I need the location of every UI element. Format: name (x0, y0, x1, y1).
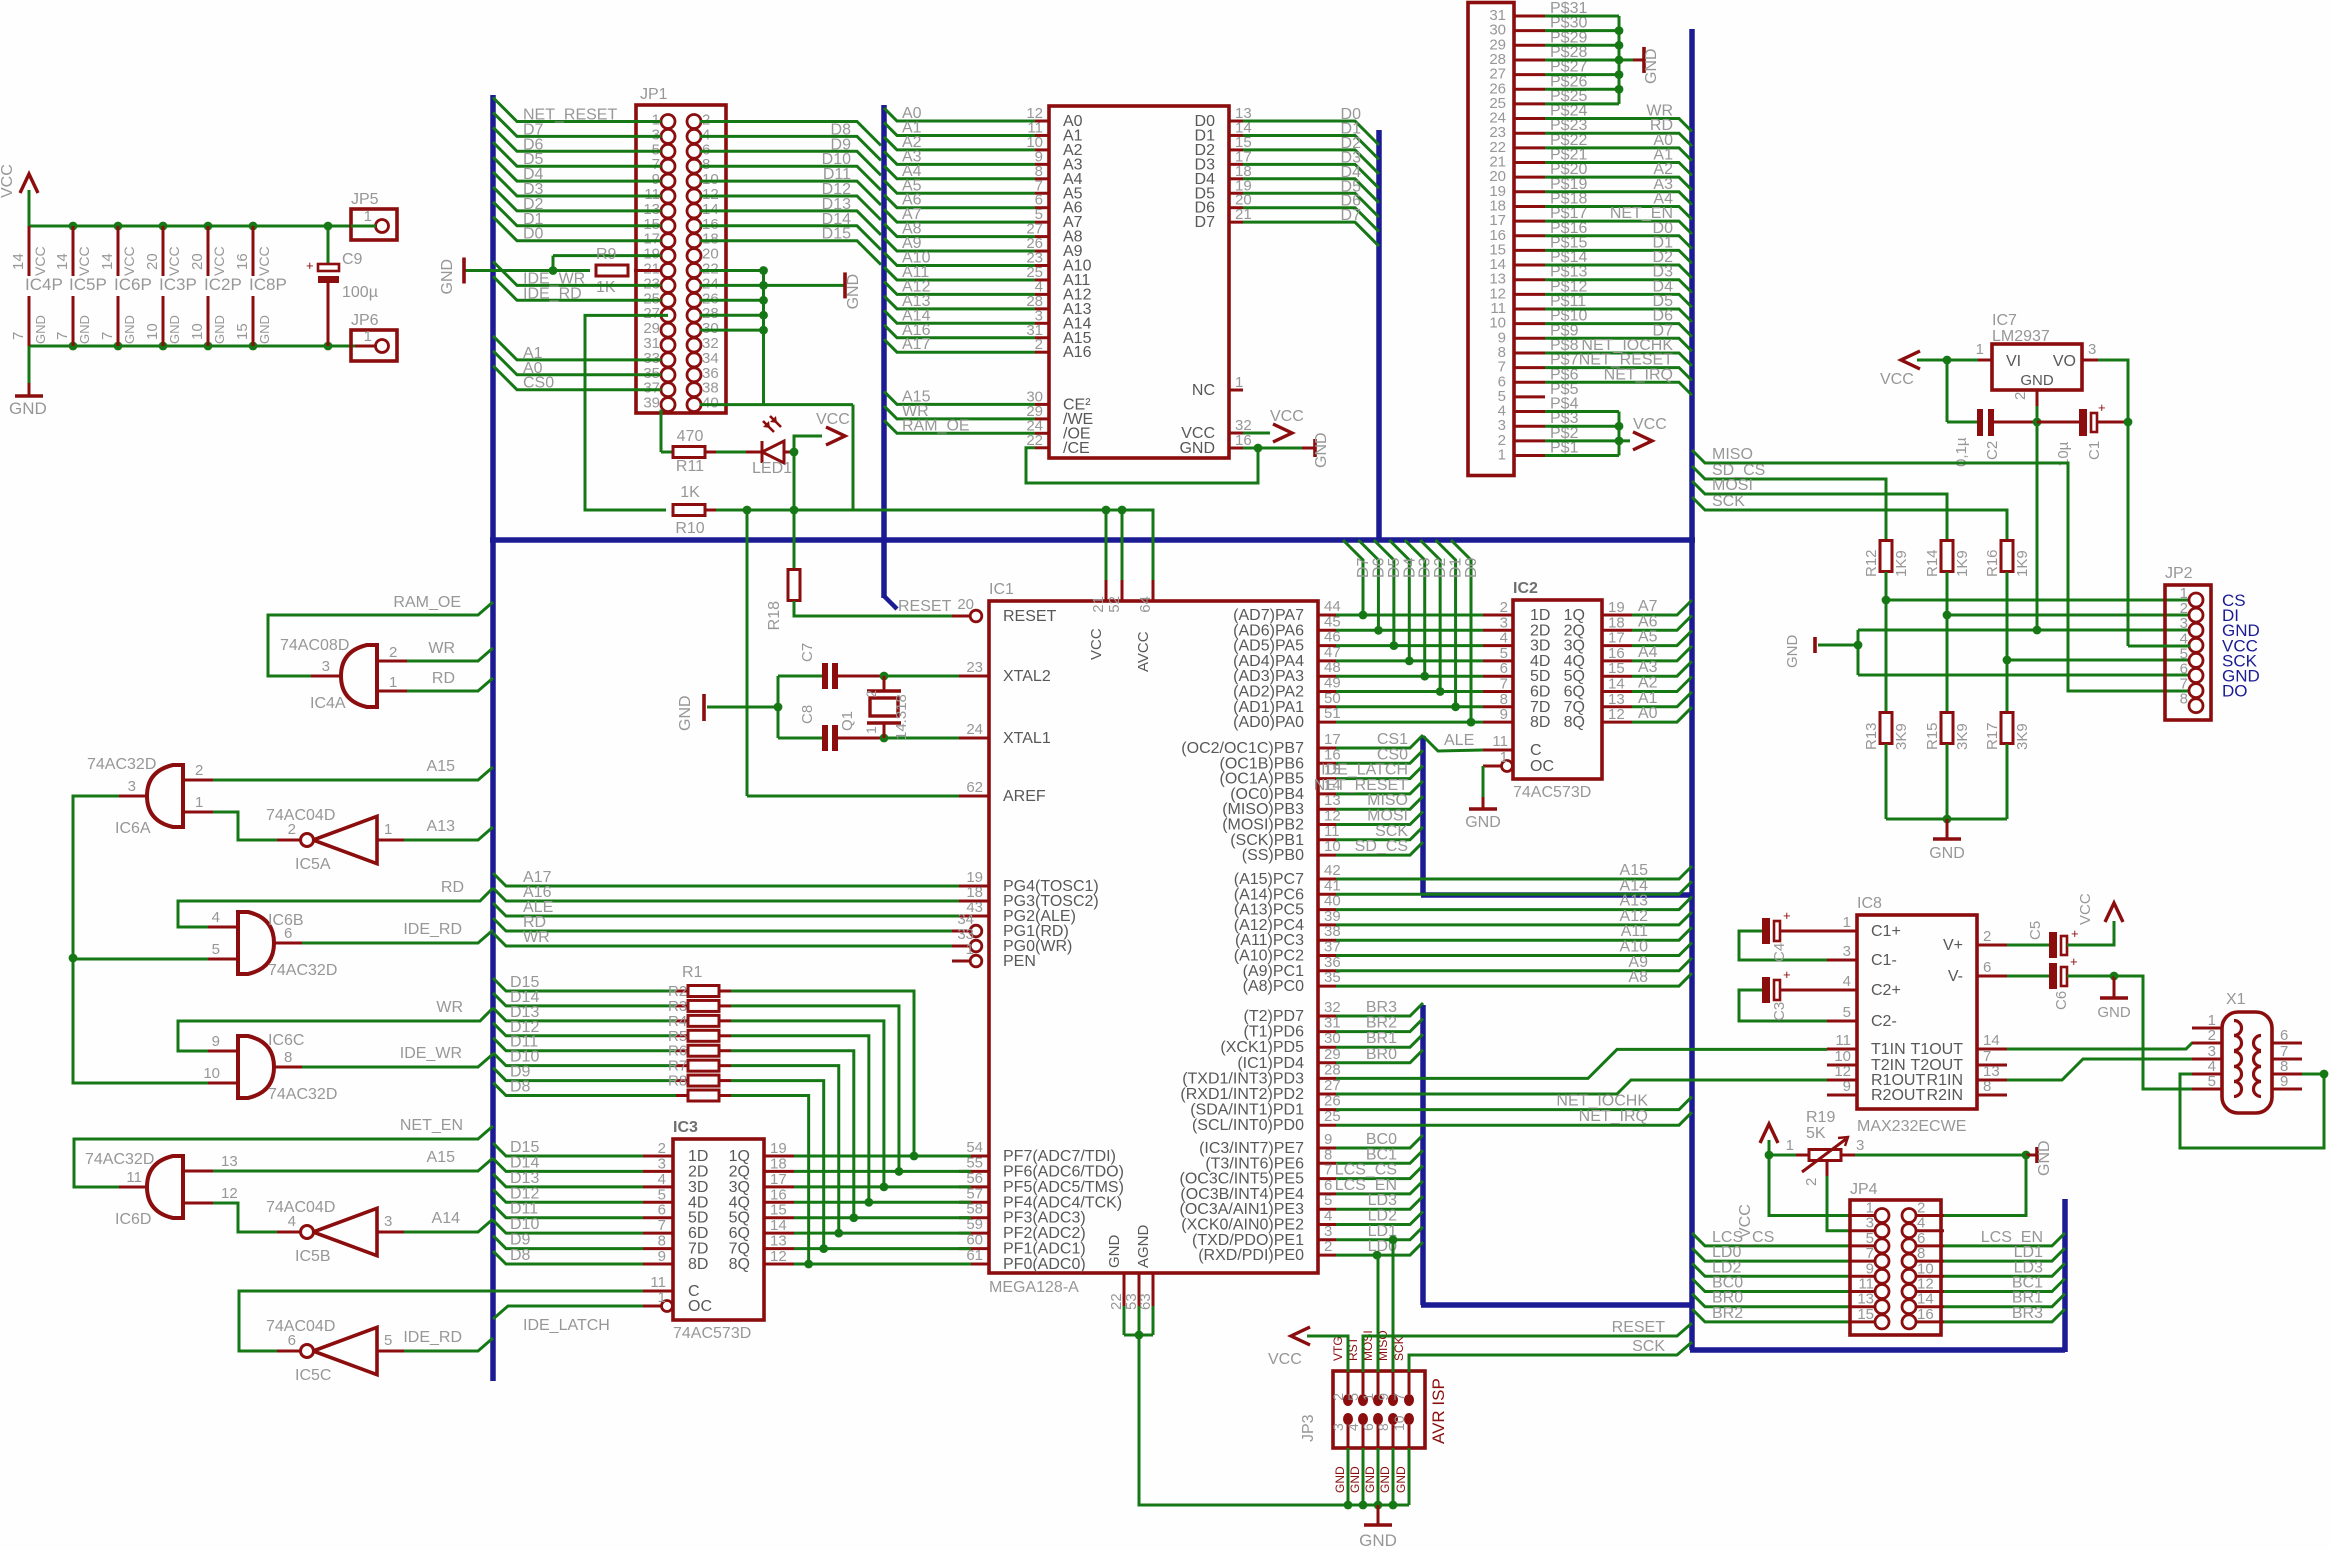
svg-text:2: 2 (2012, 392, 2029, 400)
svg-text:(TXD1/INT3)PD3: (TXD1/INT3)PD3 (1182, 1070, 1304, 1087)
svg-text:BR3: BR3 (2012, 1305, 2043, 1322)
svg-text:RESET: RESET (1612, 1319, 1666, 1336)
svg-text:GND: GND (1179, 440, 1215, 457)
svg-text:IDE_RD: IDE_RD (403, 1329, 462, 1346)
svg-text:5: 5 (1345, 1393, 1361, 1401)
svg-text:14.318: 14.318 (893, 694, 910, 740)
svg-text:RESET: RESET (898, 598, 952, 615)
svg-text:74AC573D: 74AC573D (1513, 784, 1591, 801)
svg-text:(RXD/PDI)PE0: (RXD/PDI)PE0 (1198, 1247, 1304, 1264)
svg-text:VCC: VCC (1268, 1351, 1302, 1368)
svg-text:A0: A0 (1638, 705, 1658, 722)
svg-text:WR: WR (428, 640, 455, 657)
svg-text:WR: WR (436, 999, 463, 1016)
svg-text:+: + (2070, 954, 2078, 969)
svg-text:GND: GND (2020, 372, 2054, 389)
svg-text:3: 3 (384, 1213, 392, 1230)
svg-text:AVCC: AVCC (1135, 631, 1152, 672)
svg-text:BR2: BR2 (1712, 1305, 1743, 1322)
svg-text:R13: R13 (1863, 722, 1880, 750)
svg-text:T1OUT: T1OUT (1911, 1041, 1964, 1058)
svg-text:2: 2 (1330, 1393, 1346, 1401)
svg-text:IC5C: IC5C (295, 1367, 331, 1384)
svg-text:14: 14 (1983, 1032, 2000, 1049)
svg-text:ALE: ALE (1444, 732, 1474, 749)
svg-text:A16: A16 (1063, 344, 1092, 361)
svg-text:C: C (1530, 742, 1542, 759)
svg-text:74AC04D: 74AC04D (266, 807, 335, 824)
svg-text:13: 13 (221, 1153, 238, 1170)
svg-text:IC4P: IC4P (25, 275, 63, 294)
svg-text:(SCL/INT0)PD0: (SCL/INT0)PD0 (1192, 1117, 1304, 1134)
svg-text:12: 12 (221, 1185, 238, 1202)
svg-text:NET_IRQ: NET_IRQ (1579, 1108, 1648, 1125)
svg-text:15: 15 (1857, 1306, 1874, 1323)
svg-text:10: 10 (189, 323, 206, 340)
svg-text:D0: D0 (1463, 557, 1480, 578)
svg-text:(T1)PD6: (T1)PD6 (1244, 1024, 1305, 1041)
svg-text:SCK: SCK (1632, 1338, 1665, 1355)
svg-text:1K9: 1K9 (1893, 550, 1910, 577)
svg-text:1: 1 (195, 794, 203, 811)
svg-text:1K: 1K (680, 484, 700, 501)
svg-text:74AC32D: 74AC32D (85, 1151, 154, 1168)
svg-text:IC8: IC8 (1857, 895, 1882, 912)
svg-text:R2OUT: R2OUT (1871, 1087, 1925, 1104)
svg-text:8: 8 (284, 1049, 292, 1066)
svg-text:(IC1)PD4: (IC1)PD4 (1237, 1055, 1304, 1072)
svg-text:GND: GND (33, 315, 48, 344)
svg-text:IC1: IC1 (989, 581, 1014, 598)
svg-text:2: 2 (2208, 1027, 2216, 1044)
svg-text:5: 5 (212, 941, 220, 958)
svg-text:21: 21 (1090, 596, 1107, 613)
svg-text:52: 52 (1106, 596, 1123, 613)
svg-text:1: 1 (1360, 1393, 1376, 1401)
svg-text:GND: GND (257, 315, 272, 344)
svg-text:VTG: VTG (1331, 1336, 1345, 1361)
svg-text:14: 14 (99, 253, 116, 270)
svg-text:GND: GND (2036, 1140, 2053, 1176)
svg-text:NET_IOCHK: NET_IOCHK (1556, 1093, 1648, 1110)
svg-text:Q1: Q1 (839, 711, 856, 731)
svg-text:1: 1 (863, 726, 879, 734)
svg-text:IC3P: IC3P (159, 275, 197, 294)
svg-text:10: 10 (144, 323, 161, 340)
svg-text:JP4: JP4 (1850, 1181, 1878, 1198)
svg-text:GND: GND (1378, 1466, 1392, 1493)
svg-text:D7: D7 (1341, 207, 1362, 224)
svg-text:C2: C2 (1984, 441, 2001, 460)
svg-text:MAX232ECWE: MAX232ECWE (1857, 1118, 1966, 1135)
svg-text:8Q: 8Q (1564, 714, 1585, 731)
svg-text:62: 62 (966, 779, 983, 796)
svg-text:GND: GND (77, 315, 92, 344)
svg-text:WR: WR (523, 929, 550, 946)
svg-text:GND: GND (167, 315, 182, 344)
svg-text:10: 10 (1391, 1415, 1407, 1431)
svg-text:3: 3 (128, 778, 136, 795)
svg-text:74AC573D: 74AC573D (673, 1325, 751, 1342)
svg-text:GND: GND (1313, 432, 1330, 468)
svg-text:64: 64 (1137, 596, 1154, 613)
svg-text:C6: C6 (2053, 991, 2070, 1010)
svg-text:GND: GND (9, 399, 47, 418)
svg-text:2: 2 (1324, 1238, 1332, 1255)
svg-text:IC3: IC3 (673, 1119, 698, 1136)
svg-text:GND: GND (1929, 845, 1965, 862)
svg-text:12: 12 (770, 1248, 787, 1265)
svg-text:X1: X1 (2226, 991, 2246, 1008)
svg-text:20: 20 (957, 596, 974, 613)
svg-text:1: 1 (364, 328, 372, 345)
svg-text:74AC32D: 74AC32D (268, 1086, 337, 1103)
svg-text:A8: A8 (1628, 969, 1648, 986)
svg-text:16: 16 (1235, 432, 1252, 449)
svg-text:R16: R16 (1984, 549, 2001, 577)
svg-text:R1: R1 (682, 964, 703, 981)
svg-text:9: 9 (658, 1248, 666, 1265)
svg-text:IDE_LATCH: IDE_LATCH (523, 1317, 610, 1334)
svg-text:NC: NC (1192, 382, 1215, 399)
svg-text:16: 16 (1917, 1306, 1934, 1323)
svg-text:3K9: 3K9 (2014, 723, 2031, 750)
svg-text:RAM_OE: RAM_OE (902, 417, 970, 434)
svg-text:C1+: C1+ (1871, 923, 1901, 940)
svg-text:+: + (2071, 926, 2079, 941)
svg-text:VO: VO (2053, 353, 2076, 370)
svg-text:4: 4 (212, 909, 220, 926)
svg-text:VI: VI (2006, 353, 2021, 370)
svg-text:NET_EN: NET_EN (400, 1117, 463, 1134)
svg-text:BR1: BR1 (1366, 1030, 1397, 1047)
svg-text:21: 21 (1235, 206, 1252, 223)
svg-text:23: 23 (966, 659, 983, 676)
svg-text:VCC: VCC (211, 246, 227, 276)
svg-text:R14: R14 (1924, 549, 1941, 577)
svg-text:(A8)PC0: (A8)PC0 (1243, 978, 1304, 995)
svg-text:39: 39 (643, 395, 660, 412)
svg-text:9: 9 (2280, 1073, 2288, 1090)
svg-text:GND: GND (1359, 1531, 1397, 1550)
svg-text:AREF: AREF (1003, 788, 1046, 805)
svg-text:MOSI: MOSI (1712, 477, 1753, 494)
svg-text:D0: D0 (523, 226, 544, 243)
svg-text:PF0(ADC0): PF0(ADC0) (1003, 1256, 1086, 1273)
svg-text:D8: D8 (510, 1247, 531, 1264)
svg-text:GND: GND (845, 274, 862, 310)
svg-text:8D: 8D (688, 1256, 708, 1273)
svg-text:14: 14 (54, 253, 71, 270)
svg-text:VCC: VCC (0, 164, 16, 198)
svg-text:/CE: /CE (1063, 440, 1090, 457)
svg-text:1: 1 (1976, 341, 1984, 358)
svg-text:+: + (2098, 400, 2106, 415)
svg-text:GND: GND (2097, 1004, 2131, 1021)
svg-text:4: 4 (1843, 973, 1851, 990)
svg-text:22: 22 (1026, 432, 1043, 449)
svg-text:VCC: VCC (32, 246, 48, 276)
svg-text:V+: V+ (1943, 937, 1963, 954)
svg-text:9: 9 (1500, 706, 1508, 723)
svg-text:4: 4 (288, 1213, 296, 1230)
svg-text:3: 3 (1843, 943, 1851, 960)
svg-text:8D: 8D (1530, 714, 1550, 731)
svg-text:5K: 5K (1806, 1125, 1826, 1142)
svg-text:+: + (1783, 908, 1791, 923)
svg-text:R12: R12 (1863, 549, 1880, 577)
svg-text:R11: R11 (676, 458, 704, 475)
svg-text:11: 11 (126, 1169, 142, 1186)
svg-text:7: 7 (54, 332, 71, 340)
svg-text:3K9: 3K9 (1954, 723, 1971, 750)
svg-text:1: 1 (1786, 1137, 1794, 1154)
svg-text:VCC: VCC (121, 246, 137, 276)
svg-text:470: 470 (677, 428, 704, 445)
svg-text:3: 3 (1856, 1137, 1864, 1154)
svg-text:8: 8 (2180, 691, 2188, 708)
svg-text:A15: A15 (427, 1149, 456, 1166)
svg-text:7: 7 (1391, 1393, 1407, 1401)
svg-text:2: 2 (1803, 1178, 1820, 1186)
svg-text:VCC: VCC (76, 246, 92, 276)
svg-text:3: 3 (2088, 341, 2096, 358)
svg-text:IC5B: IC5B (295, 1248, 331, 1265)
svg-text:VCC: VCC (256, 246, 272, 276)
svg-text:T1IN: T1IN (1871, 1041, 1906, 1058)
svg-text:JP2: JP2 (2165, 565, 2193, 582)
svg-text:2: 2 (863, 690, 879, 698)
svg-text:(SS)PB0: (SS)PB0 (1242, 847, 1304, 864)
svg-text:RAM_OE: RAM_OE (393, 594, 461, 611)
svg-text:7: 7 (99, 332, 116, 340)
svg-text:C8: C8 (799, 705, 816, 724)
svg-text:C9: C9 (342, 251, 363, 268)
svg-text:MEGA128-A: MEGA128-A (989, 1279, 1079, 1296)
svg-text:74AC04D: 74AC04D (266, 1199, 335, 1216)
svg-text:+: + (1783, 967, 1791, 982)
svg-text:VCC: VCC (1088, 628, 1105, 660)
svg-text:74AC32D: 74AC32D (268, 962, 337, 979)
svg-text:6: 6 (1360, 1423, 1376, 1431)
svg-text:GND: GND (1643, 48, 1660, 84)
svg-text:(SDA/INT1)PD1: (SDA/INT1)PD1 (1190, 1102, 1304, 1119)
svg-text:GND: GND (1784, 635, 1801, 669)
svg-text:C3: C3 (1771, 1002, 1788, 1021)
svg-text:OC: OC (688, 1298, 712, 1315)
svg-text:1: 1 (1235, 374, 1243, 391)
svg-text:100µ: 100µ (342, 284, 378, 301)
svg-text:VCC: VCC (1633, 416, 1667, 433)
svg-text:6: 6 (288, 1332, 296, 1349)
svg-text:GND: GND (122, 315, 137, 344)
svg-text:2: 2 (288, 821, 296, 838)
svg-text:R9: R9 (596, 246, 617, 263)
svg-text:IC6P: IC6P (114, 275, 152, 294)
svg-text:8Q: 8Q (729, 1256, 750, 1273)
svg-text:5: 5 (1843, 1004, 1851, 1021)
svg-text:8: 8 (1375, 1423, 1391, 1431)
svg-text:SD_CS: SD_CS (1355, 838, 1408, 855)
svg-text:R18: R18 (766, 601, 783, 630)
svg-text:IDE_WR: IDE_WR (400, 1045, 462, 1062)
svg-text:1K: 1K (596, 279, 616, 296)
svg-text:11: 11 (1835, 1032, 1851, 1049)
svg-text:RD: RD (432, 670, 455, 687)
svg-text:15: 15 (234, 323, 251, 340)
svg-text:IC5A: IC5A (295, 856, 331, 873)
svg-text:XTAL2: XTAL2 (1003, 668, 1051, 685)
svg-text:XTAL1: XTAL1 (1003, 730, 1051, 747)
svg-text:+: + (306, 258, 314, 273)
svg-text:SCK: SCK (1712, 493, 1745, 510)
svg-text:1: 1 (966, 941, 974, 958)
svg-text:6: 6 (1983, 959, 1991, 976)
svg-text:1: 1 (1500, 749, 1508, 766)
svg-text:GND: GND (1106, 1235, 1123, 1269)
svg-text:IC5P: IC5P (69, 275, 107, 294)
svg-text:IC7: IC7 (1992, 312, 2017, 329)
svg-text:D8: D8 (510, 1079, 531, 1096)
svg-text:74AC04D: 74AC04D (266, 1318, 335, 1335)
svg-text:AGND: AGND (1135, 1224, 1152, 1268)
svg-text:11: 11 (1492, 733, 1508, 750)
svg-text:8: 8 (1983, 1078, 1991, 1095)
svg-text:IC6C: IC6C (268, 1032, 304, 1049)
svg-text:DO: DO (2222, 682, 2248, 701)
svg-text:IDE_RD: IDE_RD (523, 285, 582, 302)
svg-text:GND: GND (1348, 1466, 1362, 1493)
svg-text:1K9: 1K9 (2014, 550, 2031, 577)
svg-text:9: 9 (1843, 1078, 1851, 1095)
svg-text:VCC: VCC (1880, 371, 1914, 388)
svg-text:C4: C4 (1771, 943, 1788, 962)
svg-text:GND: GND (1394, 1466, 1408, 1493)
svg-text:A14: A14 (432, 1210, 461, 1227)
svg-text:OC: OC (1530, 758, 1554, 775)
svg-text:GND: GND (439, 259, 456, 295)
svg-text:MISO: MISO (1712, 446, 1753, 463)
svg-text:BR2: BR2 (1366, 1015, 1397, 1032)
svg-text:RESET: RESET (1003, 608, 1057, 625)
svg-text:C2-: C2- (1871, 1013, 1897, 1030)
svg-text:JP5: JP5 (351, 191, 379, 208)
svg-text:32: 32 (1324, 999, 1341, 1016)
svg-text:C1: C1 (2086, 441, 2103, 460)
svg-text:9: 9 (1375, 1393, 1391, 1401)
svg-text:1: 1 (389, 674, 397, 691)
svg-text:1: 1 (658, 1289, 666, 1306)
svg-text:BR3: BR3 (1366, 999, 1397, 1016)
svg-text:74AC08D: 74AC08D (280, 637, 349, 654)
svg-text:PEN: PEN (1003, 953, 1036, 970)
svg-text:6: 6 (2280, 1027, 2288, 1044)
svg-text:10: 10 (203, 1065, 220, 1082)
svg-text:C7: C7 (799, 643, 816, 662)
svg-text:14: 14 (10, 253, 27, 270)
svg-text:A17: A17 (902, 336, 931, 353)
svg-text:1: 1 (384, 821, 392, 838)
svg-text:C5: C5 (2027, 921, 2044, 940)
svg-text:JP3: JP3 (1300, 1414, 1317, 1442)
svg-text:IC2P: IC2P (204, 275, 242, 294)
svg-text:3: 3 (1330, 1423, 1346, 1431)
svg-text:IC8P: IC8P (249, 275, 287, 294)
svg-text:2: 2 (1035, 336, 1043, 353)
svg-text:GND: GND (1465, 814, 1501, 831)
svg-text:16: 16 (234, 253, 251, 270)
svg-text:VCC: VCC (1270, 408, 1304, 425)
svg-text:RD: RD (441, 879, 464, 896)
svg-text:VCC: VCC (816, 411, 850, 428)
svg-text:JP1: JP1 (640, 86, 668, 103)
svg-text:3: 3 (322, 658, 330, 675)
svg-text:CS0: CS0 (523, 375, 554, 392)
svg-text:JP6: JP6 (351, 312, 379, 329)
svg-text:1: 1 (1498, 447, 1506, 464)
svg-text:LED1: LED1 (752, 460, 792, 477)
svg-text:GND: GND (212, 315, 227, 344)
svg-text:12: 12 (1608, 706, 1625, 723)
svg-text:VCC: VCC (166, 246, 182, 276)
svg-text:2: 2 (1983, 928, 1991, 945)
svg-text:74AC32D: 74AC32D (87, 756, 156, 773)
svg-text:7: 7 (10, 332, 27, 340)
svg-text:IDE_RD: IDE_RD (403, 921, 462, 938)
svg-text:(AD0)PA0: (AD0)PA0 (1233, 714, 1304, 731)
svg-text:C1-: C1- (1871, 952, 1897, 969)
svg-text:20: 20 (189, 253, 206, 270)
svg-text:VCC: VCC (2077, 893, 2094, 925)
svg-text:A15: A15 (427, 758, 456, 775)
svg-text:R2IN: R2IN (1927, 1087, 1963, 1104)
svg-text:2: 2 (195, 762, 203, 779)
svg-text:2: 2 (389, 644, 397, 661)
svg-text:V-: V- (1948, 968, 1963, 985)
svg-text:GND: GND (1363, 1466, 1377, 1493)
svg-text:LM2937: LM2937 (1992, 328, 2050, 345)
svg-text:AVR ISP: AVR ISP (1429, 1378, 1448, 1444)
svg-text:BR0: BR0 (1366, 1046, 1397, 1063)
svg-text:D7: D7 (1195, 214, 1216, 231)
svg-text:1: 1 (364, 208, 372, 225)
svg-text:C2+: C2+ (1871, 982, 1901, 999)
svg-text:R10: R10 (675, 520, 704, 537)
svg-text:GND: GND (1333, 1466, 1347, 1493)
svg-text:NET_IRQ: NET_IRQ (1604, 366, 1673, 383)
svg-text:20: 20 (144, 253, 161, 270)
svg-text:6: 6 (284, 925, 292, 942)
svg-text:R15: R15 (1924, 722, 1941, 750)
svg-text:9: 9 (212, 1033, 220, 1050)
svg-text:R17: R17 (1984, 722, 2001, 750)
svg-text:D15: D15 (822, 226, 851, 243)
svg-text:24: 24 (966, 721, 983, 738)
svg-text:(T2)PD7: (T2)PD7 (1244, 1008, 1305, 1025)
svg-text:5: 5 (384, 1332, 392, 1349)
svg-text:GND: GND (677, 695, 694, 731)
svg-text:R8: R8 (668, 1073, 687, 1090)
svg-text:IC2: IC2 (1513, 580, 1538, 597)
svg-text:3K9: 3K9 (1893, 723, 1910, 750)
svg-text:4: 4 (1345, 1423, 1361, 1431)
svg-text:A13: A13 (427, 818, 456, 835)
svg-text:IC6D: IC6D (115, 1211, 151, 1228)
svg-text:IC6A: IC6A (115, 820, 151, 837)
svg-text:1: 1 (1843, 914, 1851, 931)
svg-text:R19: R19 (1806, 1109, 1835, 1126)
svg-text:5: 5 (2208, 1073, 2216, 1090)
